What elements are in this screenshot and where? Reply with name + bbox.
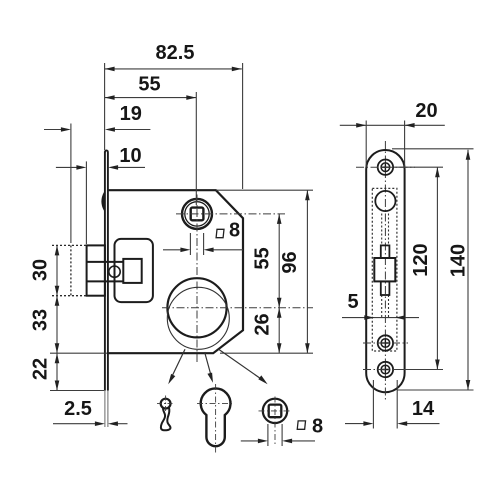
- square spindle icon: [263, 399, 287, 423]
- svg-text:140: 140: [448, 244, 470, 277]
- dimension 120: [436, 167, 438, 369]
- latch circle: [375, 191, 395, 211]
- svg-text:5: 5: [347, 291, 358, 313]
- guide pin hidden edges dashed: [382, 214, 389, 320]
- bolt box: [374, 258, 395, 281]
- euro cylinder centerlines: [215, 384, 217, 454]
- dimension 5: [342, 317, 419, 319]
- dimension 20: [340, 121, 445, 168]
- leader arrow to square icon: [219, 349, 264, 381]
- faceplate extension lines below: [105, 391, 108, 428]
- svg-text:82.5: 82.5: [156, 42, 195, 64]
- guide pin top: [381, 245, 390, 258]
- svg-text:8: 8: [312, 416, 323, 438]
- cylinder hole thick circle: [167, 278, 226, 337]
- faceplate pin bump: [102, 193, 104, 211]
- follower hub square hole: [191, 208, 204, 221]
- key icon: [161, 399, 171, 409]
- bottom screw 1: [378, 335, 393, 350]
- top screw centerline: [356, 166, 415, 168]
- bolt housing rounded box: [115, 239, 153, 302]
- dimension 96 right: [306, 190, 308, 353]
- dimension 140: [467, 150, 469, 390]
- svg-text:8: 8: [229, 220, 240, 242]
- cylinder centerline horizontal: [162, 307, 313, 309]
- dimension 8 hub: [163, 233, 243, 255]
- square icon centerlines: [259, 410, 292, 412]
- svg-text:20: 20: [415, 100, 437, 122]
- lock body outline: [108, 190, 243, 353]
- extension body bottom left: [50, 352, 107, 354]
- latch bolt extended dashed outline: [52, 245, 87, 295]
- chain arrows 30: [55, 245, 60, 255]
- label square-8 hub: [216, 229, 224, 237]
- follower hub inner circle: [185, 202, 209, 226]
- follower hub outer circle: [182, 199, 212, 229]
- euro cylinder icon: [201, 388, 231, 446]
- dimension 19: [44, 124, 150, 244]
- latch bolt head: [87, 245, 124, 295]
- chain arrows 33: [55, 296, 60, 306]
- svg-text:2.5: 2.5: [64, 398, 92, 420]
- left chain dimension line: [56, 245, 58, 390]
- adjusting screw: [109, 266, 120, 277]
- plate outline: [366, 150, 404, 392]
- chain arrows 22: [55, 353, 60, 363]
- dimension 8 bottom: [241, 424, 315, 446]
- leader arrow to key icon: [170, 349, 185, 380]
- label square-8 bottom: [297, 421, 305, 429]
- hub/cylinder centerline vertical: [196, 195, 198, 365]
- dimension 82.5: [105, 63, 243, 189]
- top screw: [378, 160, 393, 175]
- extension body top right: [216, 189, 313, 191]
- svg-text:22: 22: [30, 358, 52, 380]
- svg-text:120: 120: [410, 243, 432, 276]
- svg-text:19: 19: [120, 103, 142, 125]
- bottom screw 2: [378, 362, 393, 377]
- guide pin bottom: [381, 281, 390, 295]
- lock case dotted rect: [372, 188, 397, 351]
- dimension 10: [56, 161, 145, 244]
- bolt tail block: [123, 259, 141, 283]
- svg-text:14: 14: [412, 398, 435, 420]
- extension faceplate bottom left: [50, 390, 104, 392]
- svg-text:33: 33: [30, 309, 52, 331]
- cylinder secondary thin circle: [167, 287, 229, 349]
- dimension 55 right: [278, 214, 280, 308]
- svg-text:30: 30: [30, 259, 52, 281]
- dimension 14: [345, 380, 440, 429]
- dimension 2.5: [53, 423, 128, 425]
- faceplate (side view): [105, 150, 108, 390]
- svg-text:55: 55: [138, 74, 160, 96]
- leader arrow to euro cylinder icon: [205, 352, 212, 379]
- dimension 26 right: [278, 308, 280, 353]
- dimension 55 top: [105, 92, 197, 205]
- svg-text:55: 55: [252, 247, 274, 269]
- svg-text:26: 26: [252, 313, 274, 335]
- hub centerline horizontal: [176, 213, 285, 215]
- svg-text:10: 10: [119, 145, 141, 167]
- key icon centerlines: [157, 403, 174, 405]
- plate centerline vertical: [384, 141, 386, 400]
- svg-text:96: 96: [279, 251, 301, 273]
- extension body bottom right: [220, 352, 313, 354]
